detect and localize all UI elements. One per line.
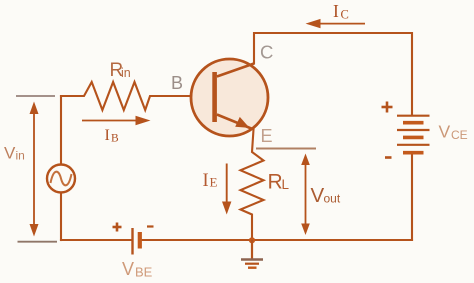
svg-text:I: I (203, 171, 209, 191)
svg-text:CE: CE (451, 128, 468, 142)
svg-text:L: L (282, 177, 290, 192)
svg-text:in: in (121, 66, 131, 80)
svg-text:in: in (16, 149, 25, 163)
svg-text:I: I (105, 127, 110, 144)
svg-text:BE: BE (135, 265, 153, 280)
svg-text:C: C (341, 8, 349, 22)
svg-text:R: R (268, 170, 283, 193)
svg-text:V: V (439, 122, 451, 142)
svg-text:I: I (333, 1, 339, 21)
svg-text:B: B (111, 133, 119, 145)
svg-text:V: V (122, 259, 134, 279)
svg-text:E: E (261, 126, 273, 146)
svg-text:out: out (324, 192, 341, 206)
svg-text:E: E (210, 175, 218, 190)
svg-text:B: B (171, 73, 183, 93)
svg-text:V: V (311, 184, 325, 207)
svg-text:V: V (4, 144, 16, 163)
svg-text:C: C (260, 42, 273, 63)
